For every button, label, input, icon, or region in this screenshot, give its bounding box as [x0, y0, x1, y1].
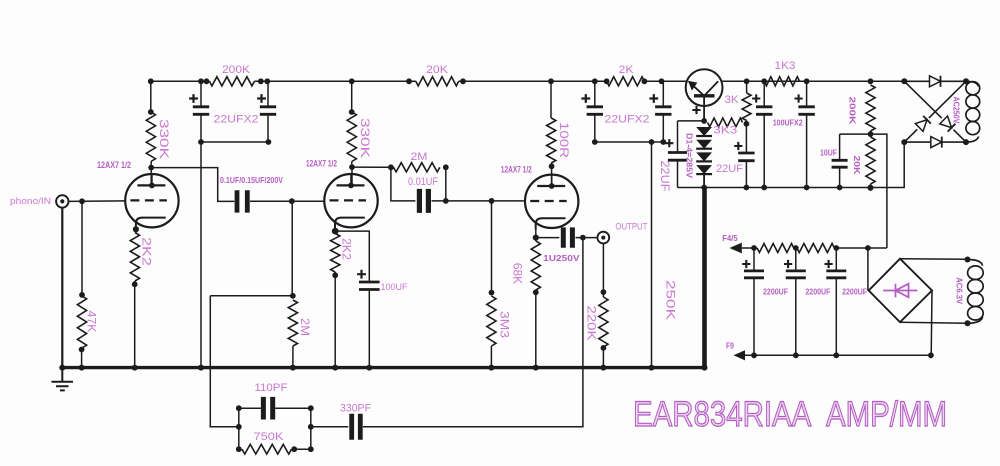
wire diamond right drop [930, 291, 933, 356]
wire 22UF-1 bottom [677, 160, 679, 187]
wire cathode V3 [533, 235, 539, 241]
wire feedback branch [210, 295, 292, 297]
wire PSU return [678, 142, 905, 187]
svg-text:220K: 220K [585, 306, 599, 341]
junction dots F9 bus [751, 352, 757, 358]
diode bridge bottom [931, 137, 942, 148]
wire to V3 grid [432, 200, 525, 202]
wire bridge diagonal TL-BR [904, 81, 941, 118]
resistor 2K2 stage1 [130, 233, 139, 282]
wire 250K drop [651, 142, 653, 366]
capacitor 22UFX2-2 left unit [594, 81, 596, 107]
wire 10UF bottom [839, 167, 841, 187]
transformer winding AC6.3V [968, 260, 983, 266]
svg-text:OUTPUT: OUTPUT [615, 222, 647, 233]
svg-text:2M: 2M [411, 151, 428, 163]
wire diamond top to coil [900, 258, 968, 261]
wire 330K top [150, 81, 152, 112]
transistor Q1 [686, 69, 723, 106]
resistor 3M3 [487, 296, 496, 346]
wire 47K to bus [79, 347, 85, 353]
svg-text:12AX7 1/2: 12AX7 1/2 [501, 165, 532, 175]
wire box to 330PF [311, 426, 349, 428]
svg-text:750K: 750K [254, 431, 285, 443]
svg-text:2K2: 2K2 [340, 238, 354, 260]
wire 220K drop [602, 243, 604, 297]
svg-text:3M3: 3M3 [498, 311, 512, 338]
wire 0.01UF right leg [445, 167, 447, 201]
wire coupling cap to V2 grid [250, 200, 324, 202]
svg-text:22UF: 22UF [658, 161, 672, 192]
plus mark [581, 94, 590, 103]
bridge rectifier diamond [869, 259, 932, 323]
svg-text:F4/5: F4/5 [722, 233, 738, 243]
svg-text:2200UF: 2200UF [805, 287, 830, 297]
node bridge TR [963, 78, 969, 84]
resistor 1K3 [764, 77, 799, 86]
wire 22UFX2-2 bottom [595, 141, 664, 143]
svg-text:330PF: 330PF [340, 403, 371, 415]
wire 330PF to output node [363, 238, 583, 427]
capacitor 0.01UF [419, 189, 428, 213]
svg-text:EAR834RIAA AMP/MM: EAR834RIAA AMP/MM [633, 394, 947, 434]
svg-text:330K: 330K [157, 119, 171, 159]
diode chain D1-4=285V [696, 127, 712, 136]
wire input to grid [69, 200, 126, 203]
capacitor 2200UF no1 [753, 248, 755, 271]
wire bridge top edge [904, 80, 930, 82]
tube V1 12AX7 1/2 [125, 174, 178, 227]
capacitor 22UFX2-2 right unit [662, 81, 664, 107]
wire bridge bottom edge [904, 141, 930, 143]
diode bridge diag2 [915, 116, 931, 132]
wire 47K drop [81, 201, 83, 295]
diode bridge diag1 [940, 116, 956, 132]
wire diamond bottom to coil [900, 322, 968, 323]
junction dots heater rail [751, 245, 757, 251]
svg-text:3K3: 3K3 [713, 125, 737, 137]
tube V2 12AX7 1/2 [324, 174, 377, 227]
wire heater elevation [871, 134, 887, 248]
plus mark [795, 94, 803, 102]
svg-text:100UF: 100UF [381, 282, 408, 293]
svg-text:F9: F9 [726, 341, 734, 351]
wire 2K2 to bus [132, 281, 138, 287]
resistor 750K [242, 444, 292, 454]
resistor 2M interstage [394, 163, 440, 172]
svg-text:1K3: 1K3 [775, 60, 796, 72]
node divider tap [868, 131, 874, 137]
svg-text:110PF: 110PF [255, 382, 288, 394]
wire bridge diagonal BL-TR [904, 129, 917, 142]
capacitor 100UFX2 left [763, 81, 765, 107]
resistor 330K stage1 [146, 112, 155, 162]
svg-text:250K: 250K [664, 280, 678, 320]
wire 100R top [550, 81, 552, 118]
node bridge TL [901, 78, 907, 84]
resistor 330K stage2 [347, 112, 356, 162]
capacitor 10UF [832, 160, 848, 167]
capacitor 1U250V [563, 227, 572, 247]
wire cathode V1 [133, 226, 139, 232]
svg-text:22UFX2: 22UFX2 [605, 114, 650, 126]
resistor 200K [209, 77, 254, 86]
svg-text:AC250V: AC250V [952, 97, 962, 124]
wire input ground drop [61, 208, 63, 367]
junction dots on B+ rail [148, 78, 154, 84]
wire plate node to 2M [352, 166, 391, 168]
svg-text:AC6.3V: AC6.3V [955, 277, 965, 304]
wire 22UF-1 top [678, 120, 705, 122]
svg-text:22UFX2: 22UFX2 [214, 114, 259, 126]
wire grid node down [291, 201, 293, 296]
plus mark [752, 94, 760, 102]
capacitor 2200UF no2 [795, 248, 797, 271]
plus mark [189, 94, 198, 103]
plus mark [649, 94, 658, 103]
wire 3M3 to bus [490, 346, 492, 366]
node 2M right [443, 164, 449, 170]
resistor 3K [746, 81, 748, 93]
resistor 2K2 stage2 [331, 234, 340, 273]
resistor 20K [416, 77, 459, 86]
wire box top edge [239, 407, 261, 409]
wire B+ rail [151, 80, 210, 82]
wire plate V2 [351, 162, 353, 168]
resistor 220K [599, 297, 608, 347]
resistor 3K3 [708, 118, 743, 127]
capacitor 330PF [352, 414, 361, 440]
resistor 2M (grid leak) [288, 300, 297, 346]
resistor heater dropper 1 [757, 244, 794, 253]
wire plate to coupling cap [151, 168, 234, 202]
wire 20K to PSU bottom [868, 185, 874, 191]
wire cathode V2 [332, 228, 339, 235]
resistor 200K divider [866, 85, 875, 131]
wire 68K to bus [533, 289, 539, 295]
svg-text:2200UF: 2200UF [763, 287, 788, 297]
svg-text:phono/IN: phono/IN [10, 196, 51, 207]
svg-text:20K: 20K [852, 156, 862, 176]
wire cathode to output cap [536, 237, 560, 239]
wire box left edge [238, 408, 240, 449]
arrow F4/5 [730, 243, 742, 254]
wire 3M3 drop [491, 201, 493, 293]
wire ground return [200, 142, 202, 366]
wire F9 bus [745, 354, 931, 356]
node emitter [701, 118, 707, 124]
resistor 68K [531, 241, 540, 290]
capacitor 110PF [263, 397, 272, 420]
node feedback box right [308, 405, 314, 411]
svg-text:12AX7 1/2: 12AX7 1/2 [97, 160, 131, 170]
wire output cap to jack [576, 237, 598, 239]
svg-text:D1-4=285V: D1-4=285V [685, 133, 695, 178]
junction dots PSU return [701, 185, 707, 191]
node bridge BR [963, 139, 969, 145]
output connector [597, 232, 609, 244]
svg-text:100R: 100R [557, 122, 571, 158]
svg-text:0.1UF/0.15UF/200V: 0.1UF/0.15UF/200V [220, 175, 283, 185]
wire 750K to box right [291, 446, 297, 452]
capacitor 22UFX2 right unit [267, 81, 269, 107]
svg-text:1U250V: 1U250V [543, 253, 580, 263]
wire plate V1 [150, 162, 152, 168]
resistor heater dropper 2 [797, 244, 835, 253]
wire heater rail [742, 247, 757, 249]
node bridge BL [901, 139, 907, 145]
plus mark [257, 94, 266, 103]
svg-text:2200UF: 2200UF [842, 287, 867, 297]
wire 10UF branch [840, 133, 871, 135]
junction dots ground bus [59, 365, 65, 371]
wire 2K2-2 to bus [332, 272, 338, 278]
wire box right edge [310, 408, 312, 449]
svg-text:20K: 20K [426, 64, 449, 76]
svg-text:10UF: 10UF [820, 148, 837, 158]
capacitor 400UF [359, 282, 380, 290]
capacitor 0.1UF/0.15UF/200V [237, 190, 247, 212]
junction dots [198, 139, 204, 145]
wire cathode to 400UF [335, 231, 369, 281]
svg-text:2K2: 2K2 [140, 237, 154, 266]
svg-text:2K: 2K [619, 64, 635, 76]
wire 22UFX2 bottom [201, 141, 268, 143]
resistor 20K divider [866, 137, 875, 184]
wire 22UF-2 [745, 124, 747, 153]
resistor 100R [547, 118, 556, 163]
arrow F9 [734, 350, 746, 360]
capacitor 100UFX2 right [806, 81, 808, 107]
wire 0.01UF left leg [391, 167, 416, 201]
resistor 47K [77, 296, 86, 348]
capacitor 22UF shunt [668, 153, 687, 161]
capacitor 2200UF no3 [835, 248, 837, 271]
ground symbol [61, 368, 63, 382]
node 3K bottom [744, 121, 750, 127]
svg-text:22UF: 22UF [716, 163, 743, 175]
svg-text:100UFX2: 100UFX2 [773, 118, 803, 128]
transformer winding AC250V [966, 81, 979, 86]
capacitor 22UFX2 left unit [200, 81, 202, 107]
tube V3 12AX7 1/2 [525, 175, 578, 228]
plus mark near Q1 [692, 106, 700, 114]
svg-text:200K: 200K [848, 97, 858, 126]
wire 400UF to bus [368, 290, 370, 367]
resistor 2K [607, 77, 645, 86]
svg-text:68K: 68K [511, 263, 525, 285]
svg-text:3K: 3K [725, 94, 740, 106]
wire 330K-2 top [351, 81, 353, 112]
svg-text:12AX7 1/2: 12AX7 1/2 [306, 159, 337, 169]
wire ground bus [62, 366, 707, 369]
wire 2M to bus [292, 346, 294, 366]
input connector phono/IN [56, 195, 68, 207]
svg-text:47K: 47K [85, 311, 99, 333]
wire heater rail to bridge [867, 248, 869, 291]
svg-text:200K: 200K [222, 64, 251, 76]
svg-text:330K: 330K [358, 118, 372, 158]
diode inside diamond (magenta) [883, 284, 918, 298]
wire plate V3 [549, 163, 555, 169]
node feedback box left [236, 405, 242, 411]
wire 220K to bus [601, 345, 607, 351]
wire thick riser [702, 188, 707, 368]
svg-text:2M: 2M [298, 318, 312, 336]
svg-text:0.01UF: 0.01UF [408, 176, 438, 188]
diode bridge top [930, 76, 941, 87]
